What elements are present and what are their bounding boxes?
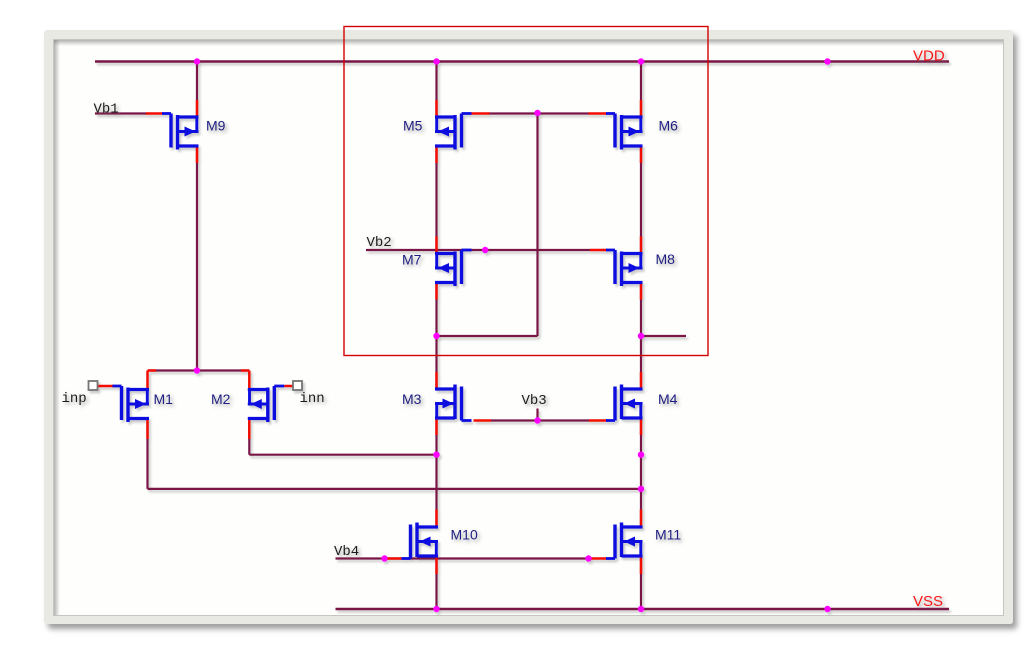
junction Vb4 left — [381, 555, 387, 561]
junction M5-M6 gates — [534, 110, 540, 116]
M1 drain pin red — [146, 419, 149, 440]
wire M2 drain down — [248, 422, 250, 455]
wire column B seg5 — [435, 556, 437, 609]
svg-text:VSS: VSS — [913, 593, 943, 610]
M1 source pin red — [146, 371, 149, 391]
wire column D seg5 — [640, 556, 642, 609]
M4 drain pin red — [640, 372, 643, 389]
M10 source pin red — [435, 557, 438, 574]
wire M10 gate pin segment red — [385, 557, 402, 560]
svg-text:M7: M7 — [402, 252, 422, 268]
wire column B seg3 — [435, 283, 437, 390]
svg-text:Vb2: Vb2 — [367, 235, 392, 251]
transistor M6 — [606, 114, 643, 150]
transistor M1 — [113, 386, 150, 422]
wire M1 drain to M4 source node — [148, 488, 642, 490]
M6 source pin red — [640, 100, 643, 117]
wire M7 drain to middle column — [437, 335, 538, 337]
svg-text:M8: M8 — [656, 251, 676, 267]
junction VDD right — [824, 58, 830, 64]
M7 source pin red — [435, 237, 438, 254]
junction VDD/M5 — [433, 58, 439, 64]
wire column B seg4 — [435, 418, 437, 527]
wire M5-M6 gate net — [489, 112, 589, 114]
transistor M9 — [162, 114, 199, 150]
junction M7 drain node — [433, 333, 439, 339]
junction M3 source node — [433, 452, 439, 458]
svg-text:Vb1: Vb1 — [94, 101, 119, 117]
svg-text:inn: inn — [300, 391, 325, 407]
inn port red stub — [284, 385, 293, 388]
junction Vb3 — [534, 417, 540, 423]
wire M8 gate pin segment red — [590, 249, 608, 252]
junction tail node — [194, 367, 200, 373]
svg-text:M10: M10 — [451, 527, 478, 543]
svg-text:Vb4: Vb4 — [334, 544, 359, 560]
wire M5 gate pin segment red — [472, 112, 490, 115]
junction Vb4 right — [585, 555, 591, 561]
M2 source pin red — [248, 371, 251, 391]
M2 drain pin red — [248, 419, 251, 440]
wire M6 gate pin segment red — [589, 112, 608, 115]
transistor M10 — [402, 523, 439, 559]
M4 source pin red — [640, 418, 643, 435]
junction M8 drain node — [638, 333, 644, 339]
wire M4 gate pin segment red — [589, 419, 607, 422]
wire tail node M1-M2 sources — [148, 369, 250, 371]
inp port red stub — [98, 385, 114, 388]
wire M8 drain stub right — [641, 335, 686, 337]
junction VSS/M11 — [638, 606, 644, 612]
svg-text:M9: M9 — [206, 118, 226, 134]
M3 drain pin red — [435, 372, 438, 389]
svg-text:M5: M5 — [403, 118, 423, 134]
wire Vb4 net — [336, 557, 589, 559]
wire M1 drain down — [146, 422, 148, 489]
wire middle column M5/M6 gates to cascode node — [536, 113, 538, 337]
wire M2 drain to M3 source node — [249, 454, 436, 456]
svg-text:inp: inp — [62, 391, 87, 407]
M7 drain pin red — [435, 283, 438, 300]
M3 source pin red — [435, 418, 438, 435]
M9 drain pin red — [196, 100, 199, 117]
wire column D seg2 — [640, 146, 642, 254]
wire column M9 lower — [196, 146, 198, 371]
wire Vb1 pin segment red — [146, 112, 163, 115]
wire M3 gate pin segment red — [474, 419, 492, 422]
tail corner red right — [241, 369, 249, 372]
svg-text:M1: M1 — [154, 391, 174, 407]
wire VSS rail — [336, 608, 950, 611]
wire Vb3 label stub — [536, 409, 538, 421]
M8 source pin red — [640, 237, 643, 254]
tail corner red left — [148, 369, 157, 372]
junction VSS/M10 — [433, 606, 439, 612]
junction VDD/M6 — [638, 58, 644, 64]
M11 drain pin red — [640, 510, 643, 527]
wire Vb1 net — [95, 112, 148, 114]
wire VDD rail — [95, 60, 949, 63]
wire M11 gate pin segment red — [589, 557, 607, 560]
M6 drain pin red — [640, 146, 643, 163]
svg-text:M4: M4 — [658, 391, 678, 407]
svg-text:M3: M3 — [402, 391, 422, 407]
svg-text:Vb3: Vb3 — [522, 393, 547, 409]
wire column D seg4 — [640, 418, 642, 527]
M5 source pin red — [435, 100, 438, 117]
svg-text:M6: M6 — [659, 118, 679, 134]
svg-text:M11: M11 — [655, 527, 681, 543]
port inn — [293, 381, 302, 390]
annotation red box around cascode mirror M5-M8 — [344, 27, 708, 356]
wire Vb2 net — [366, 249, 590, 251]
transistor M4 — [606, 385, 643, 421]
wire column M9 upper — [196, 62, 198, 118]
junction VDD/M9 — [194, 58, 200, 64]
wire column B seg1 — [435, 62, 437, 118]
transistor M7 — [435, 250, 472, 286]
wire column D seg1 — [640, 62, 642, 118]
junction Vb2 — [482, 247, 488, 253]
M8 drain pin red — [640, 283, 643, 300]
junction VSS right — [824, 606, 830, 612]
junction M4 source node lower — [638, 486, 644, 492]
transistor M11 — [606, 523, 643, 559]
junction M4 source node upper — [638, 452, 644, 458]
M9 source pin red — [196, 146, 199, 163]
transistor M8 — [606, 250, 643, 286]
transistor M3 — [435, 385, 472, 421]
port inp — [89, 381, 98, 390]
svg-text:M2: M2 — [211, 391, 231, 407]
wire column B seg2 — [435, 146, 437, 254]
M11 source pin red — [640, 557, 643, 574]
M5 drain pin red — [435, 146, 438, 163]
transistor M2 — [248, 386, 284, 422]
transistor M5 — [435, 114, 472, 150]
M10 drain pin red — [435, 510, 438, 527]
svg-text:VDD: VDD — [913, 48, 945, 65]
wire Vb3 net — [491, 419, 589, 421]
wire column D seg3 — [640, 283, 642, 390]
